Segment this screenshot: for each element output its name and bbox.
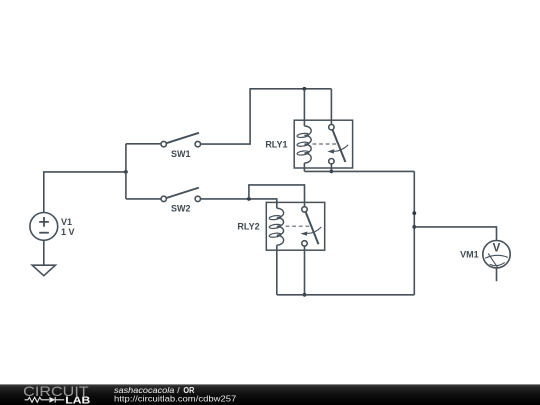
wire RLY2 contact bottom [304, 246, 306, 295]
ground [32, 265, 55, 276]
relay RLY1 [265, 120, 352, 168]
wire VM1 branch [414, 227, 496, 241]
wire V1 to ground [43, 240, 45, 265]
wire contact feed RLY1 [330, 89, 332, 125]
voltmeter VM1 [460, 241, 510, 268]
wire right vertical [413, 171, 415, 294]
footer bar [0, 384, 540, 405]
svg-text:LAB: LAB [65, 396, 90, 405]
node joint on right vertical [412, 211, 416, 215]
node junction SW2 branch [247, 197, 251, 201]
wire SW2 branch to RLY2 contact [249, 185, 305, 207]
node junction RLY2 output [303, 293, 307, 297]
wire V1 top to junction [44, 172, 126, 213]
node junction RLY1 coil feed [303, 87, 307, 91]
wire SW2 to RLY2 coil [201, 199, 277, 208]
svg-text:http://circuitlab.com/cdbw257: http://circuitlab.com/cdbw257 [114, 394, 237, 404]
wire RLY2 coil bottom [276, 245, 278, 295]
svg-text:RLY1: RLY1 [265, 139, 287, 149]
wire coil feed RLY1 [303, 89, 305, 126]
svg-text:VM1: VM1 [460, 249, 479, 259]
switch SW2 [161, 188, 201, 214]
node junction RLY1 output [330, 170, 334, 174]
wire to SW2 left terminal [126, 198, 161, 200]
wire RLY1 coil bottom [303, 163, 305, 171]
wire vertical branch SW1-SW2 [125, 144, 127, 199]
wire RLY2 bottom bus [277, 294, 415, 296]
node junction VM1 branch [412, 225, 416, 229]
wire VM1 bottom stub [496, 268, 498, 281]
wire RLY1 bus to right [304, 170, 414, 172]
node junction at V1 branch [124, 170, 128, 174]
svg-text:V: V [493, 243, 501, 255]
relay RLY2 [237, 202, 324, 250]
svg-text:RLY2: RLY2 [237, 222, 259, 232]
switch SW1 [161, 133, 201, 159]
svg-text:SW2: SW2 [171, 204, 191, 214]
CircuitLab logo resistor-diode doodle [25, 397, 65, 403]
svg-text:1 V: 1 V [61, 227, 75, 237]
svg-text:SW1: SW1 [171, 149, 191, 159]
wire to SW1 left terminal [126, 143, 161, 145]
wire SW1 to RLY1 top [201, 89, 332, 144]
svg-text:V1: V1 [61, 217, 72, 227]
wire RLY1 contact bottom [330, 164, 332, 172]
voltage source V1 [30, 213, 75, 241]
